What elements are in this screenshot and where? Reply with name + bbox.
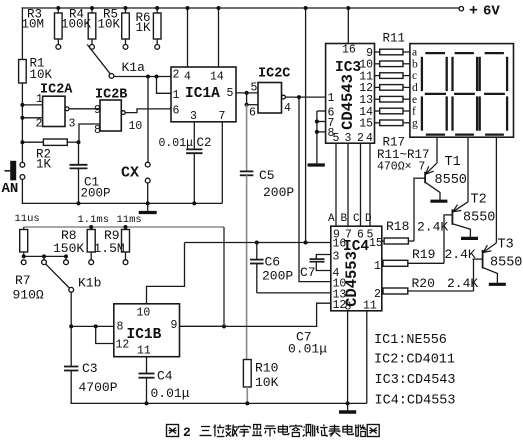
svg-text:11: 11 [363,300,377,313]
svg-text:5: 5 [251,82,258,95]
capacitor C4 0.01u [146,357,148,374]
svg-text:9: 9 [171,319,178,332]
svg-text:c: c [412,70,417,82]
wire left supply rail upper [21,7,23,162]
wire IC2C out to IC3 pin1 [285,96,325,98]
svg-text:D: D [365,213,372,225]
svg-text:100K: 100K [61,18,92,32]
svg-text:1.1ms: 1.1ms [78,214,110,226]
node K1a-CX junction [146,75,150,79]
wire IC4 pin8 to ground rail [347,311,349,404]
op-gate IC2A box [43,96,65,126]
switch K1a arm [87,45,110,74]
svg-text:C: C [353,213,360,225]
IC1B pin9 wire [180,325,225,327]
op-gate IC2B box [100,100,121,131]
svg-text:2: 2 [357,132,364,145]
svg-text:200P: 200P [263,185,294,200]
wire CX charge line [147,77,149,163]
wire display digit1 drive [436,137,438,163]
wire +6V top rail [22,7,459,9]
svg-text:3: 3 [190,110,197,123]
svg-text:4: 4 [184,71,191,84]
wire C6 to IC4 pin13 [257,292,331,294]
svg-text:C6: C6 [265,255,281,270]
svg-text:10M: 10M [22,18,45,32]
wire timing top rail [24,226,224,228]
svg-text:g: g [412,117,418,129]
svg-text:11: 11 [137,345,151,358]
node CX ground [146,201,150,205]
IC1A pin4 wire to rail [187,8,189,67]
svg-text:0.01μ: 0.01μ [159,137,194,150]
timer IC1A box [171,67,236,122]
svg-text:C2: C2 [197,136,212,150]
wires IC3 to IC4 A B C D [335,143,337,226]
caption figure title [167,425,179,437]
svg-text:11ms: 11ms [117,214,142,226]
IC2A pin1 wire [22,104,42,106]
svg-text:6V: 6V [483,4,500,20]
wire IC4 pin11 to ground rail [366,311,368,404]
svg-text:4700P: 4700P [79,380,118,395]
node R10 ground [245,401,249,405]
ground symbol upper [147,203,149,211]
svg-text:IC2B: IC2B [95,88,127,103]
svg-text:K1a: K1a [122,60,146,75]
svg-text:IC2A: IC2A [40,83,73,98]
wire K1b contact tie [24,255,66,257]
svg-text:3: 3 [69,118,76,131]
svg-text:IC3:CD4543: IC3:CD4543 [375,373,456,388]
svg-text:8: 8 [94,124,101,137]
transistor T2 8550 [451,209,453,225]
svg-text:150K: 150K [53,241,84,256]
IC2A pin2 wire [22,117,42,119]
wire IC4 pin12 from IC1B pin9 [180,303,331,326]
resistor R18 2.4K [382,240,384,242]
svg-text:9: 9 [94,104,101,117]
wire T1 base to R18 [414,178,415,241]
svg-text:10K: 10K [255,375,279,390]
resistor R19 2.4K [382,262,383,264]
svg-text:T3: T3 [498,238,514,253]
svg-text:C7: C7 [300,265,316,280]
IC2B output bubble pin10 [121,111,125,115]
IC1A pin7 wire to ground rail [221,122,223,204]
display module box [410,44,514,138]
svg-text:CX: CX [121,165,139,182]
svg-text:2.4K: 2.4K [445,247,476,262]
op-gate IC2C box [258,83,282,114]
wire pin16 line elbow to IC1B pin10 [147,243,185,304]
resistor R20 2.4K [382,290,383,292]
svg-text:6: 6 [249,107,256,120]
svg-text:910Ω: 910Ω [13,288,44,303]
svg-text:2: 2 [36,118,43,131]
capacitor C6 200P [256,243,258,260]
transistor T1 8550 [424,172,426,184]
svg-text:2.4K: 2.4K [447,276,478,291]
wire C5 to R10 [246,175,248,359]
terminal CX bottom [145,178,150,183]
svg-text:8550: 8550 [463,211,495,226]
svg-text:1K: 1K [136,21,152,35]
IC2C output bubble [282,95,286,99]
svg-text:B: B [341,213,348,225]
svg-text:R10: R10 [255,361,278,376]
svg-text:R20: R20 [412,276,435,291]
wire display digit2 drive [467,137,469,202]
svg-text:8550: 8550 [435,173,467,188]
svg-text:1: 1 [328,92,335,105]
svg-text:IC3: IC3 [335,60,361,76]
wire C5 top [246,105,248,172]
svg-text:0.01μ: 0.01μ [151,386,190,401]
transistor T3 8550 [482,250,484,269]
wire CX to ground rail [147,183,149,203]
pushbutton AN [20,162,25,167]
svg-text:b: b [412,58,418,70]
svg-text:IC1B: IC1B [127,327,162,343]
resistor R5 10K [125,8,127,13]
wire K1b to IC1B pin8 [70,292,72,326]
IC3 pin16 wire to rail [347,8,349,44]
wire IC4 pin16 VDD line [185,242,331,244]
svg-text:1.5M: 1.5M [94,241,125,256]
IC1A pin5 wire to IC2C [236,92,258,94]
svg-text:R19: R19 [412,247,435,262]
node R2-C1-pin8 [77,140,81,144]
node pin12 tie [94,324,98,328]
svg-text:10: 10 [129,120,143,133]
svg-text:4: 4 [366,132,373,145]
svg-text:2.4K: 2.4K [417,220,448,235]
svg-text:14: 14 [210,71,224,84]
svg-text:16: 16 [342,44,356,57]
svg-text:6: 6 [173,105,180,118]
svg-text:2: 2 [173,69,180,82]
resistor R2 1K [22,141,43,143]
terminal +6V [459,7,463,11]
timer IC1B box [114,304,180,357]
wire K1a to IC1A pin2 [114,76,171,78]
resistor R10 10K [243,360,251,388]
resistor R9 1.5M [124,225,128,229]
capacitor C2 0.01u [193,122,195,150]
svg-text:5: 5 [227,87,234,100]
node K1a-pin1 junction [155,75,159,79]
svg-text:2: 2 [183,425,191,440]
node C6 top [255,241,259,245]
svg-text:11us: 11us [15,213,40,225]
svg-text:3: 3 [333,251,340,264]
svg-text:8550: 8550 [490,256,522,271]
switch K1b pivot [69,287,74,292]
resistor R7 910ohm [23,227,25,230]
svg-text:470Ω× 7: 470Ω× 7 [377,161,425,174]
resistor R6 1K [156,8,158,13]
svg-text:1: 1 [374,260,381,273]
capacitor C1 200P [78,142,80,165]
svg-text:8: 8 [117,321,124,334]
svg-text:1: 1 [173,89,180,102]
svg-text:1K: 1K [36,158,52,172]
svg-text:10K: 10K [98,18,121,32]
wire +6V vertical drop [305,8,307,243]
svg-text:A: A [328,213,335,225]
node C1 ground rail [77,201,81,205]
display digit segments [421,57,423,91]
svg-text:200P: 200P [262,269,293,284]
contact circles K1b row [21,260,26,265]
svg-text:AN: AN [2,181,19,197]
IC2A output bubble pin3 [65,107,69,111]
ground symbol bottom [347,403,349,410]
svg-text:IC4:CD4553: IC4:CD4553 [375,394,456,409]
node IC2C out [297,95,301,99]
wire bottom ground rail [71,402,367,404]
wire T2 base to R19 [443,215,445,263]
svg-text:C3: C3 [82,361,98,376]
wire R10 to ground rail [246,387,248,403]
capacitor C7 between IC4 pins 3 and 4 [316,255,331,260]
svg-text:15: 15 [359,118,373,131]
svg-text:T2: T2 [471,193,487,208]
wire IC2A out to IC2B pin9 [69,108,100,110]
terminal CX top [145,162,150,167]
svg-text:6: 6 [357,229,364,242]
capacitor C5 200P [240,170,254,172]
IC1A pin14 wire to rail [218,8,220,67]
svg-text:a: a [412,47,417,59]
resistor R3 10M [57,8,59,13]
IC2B pin8 wire [79,124,100,142]
svg-text:0.01μ: 0.01μ [288,342,327,357]
switch K1b arm [46,264,69,288]
switch K1a pivot [109,74,114,79]
resistor R1 10K [19,60,27,84]
wire timing rail to IC1B pin9 node [223,227,225,326]
svg-text:16: 16 [333,238,347,251]
capacitor C3 4700P [70,326,72,366]
wire ground rail upper [22,202,223,204]
svg-text:f: f [412,106,416,118]
node +6V drop [304,241,308,245]
svg-text:IC1:NE556: IC1:NE556 [374,333,447,348]
svg-text:C5: C5 [259,168,275,183]
svg-text:d: d [412,82,418,94]
svg-text:4: 4 [284,102,291,115]
svg-text:IC1A: IC1A [185,86,220,102]
wire to IC1A pin1 [157,77,172,94]
svg-text:15: 15 [369,237,383,250]
node pin9 line [222,324,226,328]
svg-text:CD4543: CD4543 [339,74,357,130]
IC3 pins 6,7,8 ground tie [317,110,326,112]
wire IC1B pin12 [96,326,114,343]
svg-text:200P: 200P [81,187,111,201]
wire IC2C out down to IC4 pin10 [299,97,331,282]
svg-text:T1: T1 [445,155,461,170]
svg-text:R7: R7 [15,273,31,288]
svg-text:1: 1 [36,93,43,106]
wire display digit3 drive [495,137,497,243]
svg-text:e: e [412,94,417,106]
svg-text:C4: C4 [157,369,173,384]
wire T3 base to R20 [473,259,474,291]
ground symbol IC3 [308,163,325,166]
svg-text:10K: 10K [30,68,53,82]
svg-text:K1b: K1b [78,276,101,291]
svg-text:3: 3 [345,132,352,145]
resistor R4 100K [91,8,93,13]
svg-text:5: 5 [333,132,340,145]
svg-text:IC2:CD4011: IC2:CD4011 [374,353,455,368]
svg-text:10: 10 [137,307,151,320]
counter IC4 box [331,226,382,311]
decoder IC3 box [326,44,375,144]
svg-text:R18: R18 [386,219,409,234]
svg-text:12: 12 [116,339,130,352]
svg-text:+: + [469,3,478,20]
svg-text:R11: R11 [383,32,406,46]
svg-text:IC2C: IC2C [258,67,290,82]
svg-text:7: 7 [219,110,226,123]
resistor R8 150K [89,225,93,229]
node IC4 pin8 ground [346,401,350,405]
wire IC2B out to IC1A pin6 [125,109,171,113]
wire left supply rail lower [21,179,23,203]
